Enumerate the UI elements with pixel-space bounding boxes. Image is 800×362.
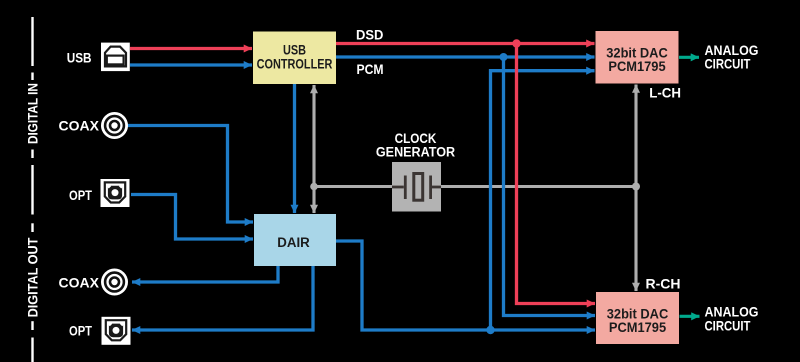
svg-text:CONTROLLER: CONTROLLER: [257, 56, 333, 72]
svg-text:OPT: OPT: [69, 188, 92, 203]
svg-text:DSD: DSD: [356, 27, 384, 43]
svg-text:DIGITAL OUT: DIGITAL OUT: [25, 238, 41, 318]
svg-text:CIRCUIT: CIRCUIT: [705, 317, 751, 333]
svg-text:L-CH: L-CH: [649, 85, 681, 100]
svg-text:GENERATOR: GENERATOR: [376, 144, 456, 160]
svg-text:PCM1795: PCM1795: [609, 319, 667, 335]
svg-text:PCM: PCM: [357, 61, 384, 77]
svg-text:COAX: COAX: [59, 274, 100, 290]
svg-text:OPT: OPT: [69, 323, 92, 338]
svg-text:USB: USB: [67, 50, 92, 66]
svg-text:DIGITAL IN: DIGITAL IN: [25, 83, 41, 144]
svg-text:R-CH: R-CH: [646, 275, 681, 291]
svg-text:PCM1795: PCM1795: [608, 59, 666, 75]
svg-text:USB: USB: [283, 42, 306, 58]
svg-text:CIRCUIT: CIRCUIT: [705, 56, 751, 72]
svg-text:COAX: COAX: [59, 118, 100, 134]
svg-text:DAIR: DAIR: [277, 235, 310, 250]
